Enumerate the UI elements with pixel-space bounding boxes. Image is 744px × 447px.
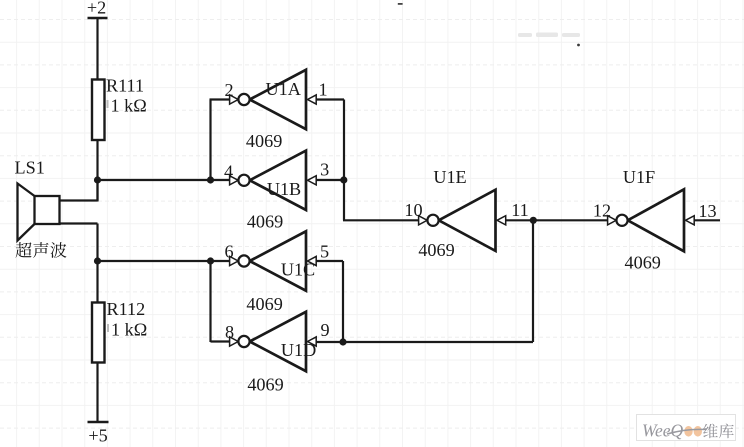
U1C input pin arrowhead xyxy=(308,256,317,265)
wire pin 2 xyxy=(210,98,231,100)
wire node B horizontal xyxy=(97,260,212,262)
inverter U1B triangle xyxy=(250,151,306,210)
svg-text:4: 4 xyxy=(224,162,233,182)
speaker LS1 body xyxy=(35,196,60,224)
U1B output pin arrowhead xyxy=(230,176,239,185)
power +5 symbol xyxy=(88,421,109,424)
svg-text:4069: 4069 xyxy=(247,212,283,232)
wire pin 6 xyxy=(211,260,231,262)
inverter U1C triangle xyxy=(250,231,306,290)
svg-text:1 kΩ: 1 kΩ xyxy=(111,96,147,116)
svg-text:4069: 4069 xyxy=(247,375,283,395)
svg-text:11: 11 xyxy=(511,200,529,220)
inverter U1E triangle xyxy=(439,190,496,251)
svg-text:5: 5 xyxy=(320,242,329,262)
U1B output bubble xyxy=(238,175,249,186)
inverter U1F triangle xyxy=(628,189,684,251)
U1D output bubble xyxy=(238,336,249,347)
scan artifact faint text xyxy=(518,33,580,38)
svg-text:10: 10 xyxy=(404,200,422,220)
U1E output bubble xyxy=(427,215,438,226)
svg-text:R111: R111 xyxy=(106,76,144,96)
U1A output bubble xyxy=(238,94,249,105)
watermark 维库 text xyxy=(703,424,718,439)
svg-text:2: 2 xyxy=(224,80,233,100)
svg-text:4069: 4069 xyxy=(418,240,454,260)
svg-text:13: 13 xyxy=(698,201,716,221)
svg-text:1: 1 xyxy=(318,80,327,100)
svg-text:1 kΩ: 1 kΩ xyxy=(111,320,147,340)
svg-text:4069: 4069 xyxy=(625,253,661,273)
svg-text:9: 9 xyxy=(320,320,329,340)
wire pin 4 xyxy=(211,179,231,181)
wire pin 10 xyxy=(343,219,429,221)
speaker LS1 horn xyxy=(18,184,35,241)
U1E output pin arrowhead xyxy=(419,216,428,225)
svg-text:4069: 4069 xyxy=(246,131,282,151)
U1C output bubble xyxy=(238,255,249,266)
wire node A horizontal xyxy=(97,179,212,181)
svg-text:4069: 4069 xyxy=(246,294,282,314)
speaker label 超声波 xyxy=(15,242,31,258)
U1F output bubble xyxy=(616,215,627,226)
U1B input pin arrowhead xyxy=(308,176,317,185)
inverter U1D triangle xyxy=(250,312,306,371)
svg-text:U1E: U1E xyxy=(433,167,466,187)
U1D input pin arrowhead xyxy=(308,337,317,346)
wire pin5/pin9 vertical xyxy=(342,261,344,342)
scan artifact dot xyxy=(577,44,580,47)
junction pin9 node xyxy=(339,338,346,345)
wire pin9 to pin11 vertical xyxy=(532,220,534,342)
wire pin 8 xyxy=(211,340,231,342)
power +2 symbol xyxy=(88,17,108,20)
speaker bottom terminal wire xyxy=(60,222,98,224)
resistor R112 xyxy=(92,303,105,363)
wire pin 11 xyxy=(506,219,534,221)
wire power to R111 xyxy=(96,18,98,81)
node A junction xyxy=(94,176,101,183)
wire pin 9 xyxy=(317,341,534,343)
svg-text:+2: +2 xyxy=(87,0,106,18)
svg-text:U1F: U1F xyxy=(623,167,655,187)
wire speaker to node B xyxy=(96,224,98,303)
U1D output pin arrowhead xyxy=(230,337,239,346)
U1F input pin arrowhead xyxy=(686,216,695,225)
scan artifact dash top xyxy=(398,3,403,5)
svg-text:+5: +5 xyxy=(88,426,107,446)
svg-text:8: 8 xyxy=(225,322,234,342)
junction pin11 node xyxy=(530,217,537,224)
svg-text:U1A: U1A xyxy=(266,79,301,99)
svg-text:U1D: U1D xyxy=(281,340,316,360)
watermark box xyxy=(637,415,736,441)
svg-text:12: 12 xyxy=(593,200,611,220)
svg-text:LS1: LS1 xyxy=(15,158,45,178)
svg-text:WeeQ: WeeQ xyxy=(642,421,684,441)
wire R112 to +5 xyxy=(96,363,98,423)
node B junction xyxy=(94,257,101,264)
U1F output pin arrowhead xyxy=(608,216,617,225)
U1A input pin arrowhead xyxy=(308,95,317,104)
speaker top terminal wire xyxy=(60,199,98,201)
U1A output pin arrowhead xyxy=(230,95,239,104)
wire pin 12 xyxy=(533,219,608,221)
wire R111 to node A xyxy=(96,140,98,202)
junction pin3 node xyxy=(340,176,347,183)
U1C output pin arrowhead xyxy=(230,256,239,265)
wire U1A/U1B output bus xyxy=(209,100,211,182)
resistor R111 xyxy=(92,80,105,141)
svg-text:3: 3 xyxy=(320,160,329,180)
svg-text:U1B: U1B xyxy=(267,179,301,199)
wire pin 1 xyxy=(317,98,345,100)
wire pin1/pin3/pin10 vertical xyxy=(343,100,345,221)
svg-text:U1C: U1C xyxy=(281,260,315,280)
svg-text:6: 6 xyxy=(224,242,233,262)
svg-text:R112: R112 xyxy=(107,299,146,319)
wire pin 13 xyxy=(695,219,721,221)
U1E input pin arrowhead xyxy=(497,216,506,225)
inverter U1A triangle xyxy=(250,70,306,129)
wire pin 3 xyxy=(317,179,345,181)
wire U1C/U1D output bus xyxy=(209,261,211,342)
wire pin 5 xyxy=(317,260,344,262)
